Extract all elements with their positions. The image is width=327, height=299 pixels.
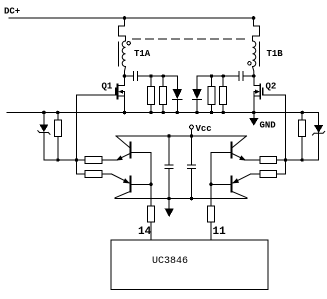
- zener diode ZD1 (far left): [38, 111, 50, 160]
- node Vcc on rail: [190, 134, 194, 138]
- resistor R8 (Q4 emitter): [77, 171, 102, 178]
- wire left clamp bottom: [44, 159, 85, 161]
- transistor Q5 (right NPN): [211, 136, 260, 161]
- node junction on rail at T1A: [123, 16, 127, 20]
- resistor R6 (far right): [299, 111, 306, 160]
- wire Q2 gate line: [285, 95, 287, 174]
- wire right snubber cluster to capacitor: [197, 75, 239, 77]
- resistor R1: [148, 76, 155, 113]
- wire C1 to left snubber cluster: [138, 75, 178, 77]
- capacitor C1 (left snubber cap): [134, 72, 138, 81]
- wire DC+ top rail: [9, 17, 254, 19]
- resistor R9 (Q5 emitter): [260, 157, 286, 164]
- diode D2: [192, 76, 202, 113]
- wire T1B bottom to node: [253, 67, 254, 76]
- resistor R7 (Q3 emitter): [85, 157, 102, 164]
- svg-text:14: 14: [138, 226, 152, 238]
- resistor R4: [220, 76, 227, 113]
- capacitor C4: [187, 136, 195, 199]
- node left bases junction: [149, 183, 153, 187]
- node R3 bottom: [210, 111, 213, 114]
- wire left base line: [150, 152, 152, 206]
- transformer T1A: [118, 41, 150, 67]
- resistor R11 (pin 14): [148, 206, 155, 240]
- node R1 bottom: [149, 111, 152, 114]
- svg-text:Q2: Q2: [266, 82, 277, 92]
- IC U1 UC3846 box: [111, 240, 268, 290]
- node D2 bottom: [195, 111, 198, 114]
- node R6 bottom: [301, 158, 304, 161]
- wire Q1 gate line: [76, 95, 78, 174]
- resistor R2: [160, 76, 167, 113]
- node right bases junction: [209, 183, 213, 187]
- node R3 top: [210, 74, 213, 77]
- wire Vcc rail: [116, 135, 247, 137]
- node C3 bottom: [167, 197, 171, 201]
- node R2 bottom: [162, 111, 165, 114]
- svg-text:DC+: DC+: [4, 7, 20, 17]
- wire source bus: [7, 112, 319, 114]
- wire C2 to T1B node: [243, 75, 254, 77]
- transformer T1B: [248, 41, 284, 67]
- node R2 top: [162, 74, 165, 77]
- wire right clamp bottom: [277, 159, 319, 161]
- svg-text:Q1: Q1: [102, 82, 113, 92]
- node T1B bottom junction: [252, 74, 256, 78]
- wire T1A node to capacitor: [125, 75, 134, 77]
- wire driver ground rail: [115, 198, 247, 200]
- resistor R3: [208, 76, 215, 113]
- svg-text:11: 11: [213, 226, 227, 238]
- transistor Q1: [77, 76, 125, 113]
- node R4 top: [222, 74, 225, 77]
- zener diode ZD2 (far right): [313, 113, 325, 161]
- ground symbol below driver rail: [165, 199, 174, 218]
- transistor Q6 (right PNP): [211, 174, 260, 199]
- wire rail to T1A (jog): [119, 18, 126, 41]
- node left gate line junction: [75, 158, 79, 162]
- svg-text:T1A: T1A: [134, 49, 151, 59]
- transistor Q4 (left PNP): [102, 174, 151, 199]
- node junction on rail at T1B: [252, 16, 256, 20]
- resistor R12 (pin 11): [208, 206, 215, 240]
- node D1 bottom: [176, 111, 179, 114]
- capacitor C2 (right snubber cap): [239, 72, 243, 81]
- node R5 bottom: [56, 158, 59, 161]
- resistor R10 (Q6 emitter): [260, 171, 286, 178]
- ground GND at Q2 source: [249, 113, 276, 131]
- resistor R5 (far left): [54, 111, 61, 160]
- svg-text:T1B: T1B: [267, 49, 284, 59]
- wire rail to T1B (jog): [253, 18, 260, 41]
- transformer core dashed line: [133, 38, 249, 40]
- wire T1A bottom to node: [125, 67, 126, 76]
- node R4 bottom: [222, 111, 225, 114]
- svg-text:GND: GND: [260, 121, 277, 131]
- node R1 top: [149, 74, 152, 77]
- transistor Q3 (left NPN): [102, 136, 151, 161]
- terminal Vcc: [190, 124, 212, 136]
- svg-text:Vcc: Vcc: [196, 124, 212, 134]
- wire right base line: [210, 152, 212, 206]
- capacitor C3: [165, 136, 173, 199]
- node cap C3 top: [167, 134, 171, 138]
- node right gate line junction: [284, 158, 288, 162]
- node T1A bottom junction: [123, 74, 127, 78]
- node C4 bottom: [190, 197, 194, 201]
- diode D1: [173, 76, 183, 113]
- node Q2 source on bus: [252, 111, 256, 115]
- transistor Q2: [254, 76, 286, 113]
- node Q1 source on bus: [123, 111, 127, 115]
- svg-text:UC3846: UC3846: [152, 256, 188, 267]
